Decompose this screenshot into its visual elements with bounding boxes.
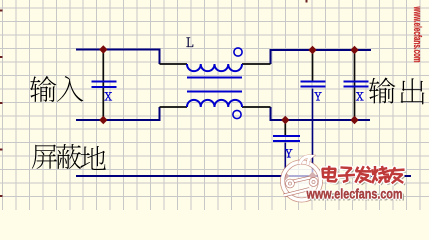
junction node: top rail / right X cap (350, 46, 358, 54)
capacitor Y (bottom): value label Y (285, 149, 292, 157)
capacitor Y (right): value label Y (314, 92, 321, 100)
wire bottom rail right (271, 107, 371, 120)
inductor L: pin bottom-left (160, 106, 188, 108)
inductor L: phase dot bottom (233, 110, 241, 118)
edge tick marks (left) (0, 10, 3, 12)
edge tick mark (top) (306, 0, 308, 3)
capacitor X (right output): pin (354, 50, 356, 120)
junction node: bottom rail / right X cap (350, 116, 358, 124)
inductor L: top winding (187, 64, 242, 71)
wire bottom rail left (76, 107, 160, 120)
capacitor Y (bottom): plates (273, 136, 300, 141)
inductor L: core line 1 (187, 77, 242, 79)
junction node: top rail / right Y cap (308, 46, 316, 54)
capacitor X (left): plates (92, 82, 117, 88)
capacitor X (right): value label X (356, 92, 363, 100)
label 输出 (output) (369, 77, 395, 103)
wire top rail left (76, 50, 160, 65)
capacitor Y (right, line-to-ground): pin (312, 50, 314, 81)
svg-text:www.elecfans.com: www.elecfans.com (411, 6, 423, 63)
watermark text www.elecfans.com (306, 187, 405, 205)
label 输入 (input) (30, 76, 56, 102)
wire shield ground line (76, 175, 411, 177)
wire right Y-cap to ground (312, 89, 314, 177)
inductor L: core line 2 (187, 91, 242, 93)
label 屏蔽地 (shield ground) (32, 145, 57, 169)
wire top rail right (271, 50, 372, 64)
capacitor X (right): plates (344, 82, 369, 87)
capacitor X (left input): pin (102, 50, 104, 121)
inductor L: bottom winding (187, 100, 242, 107)
inductor L: pin top-right (242, 63, 271, 65)
junction node: ground / bottom Y cap (281, 172, 289, 180)
inductor L: pin bottom-right (242, 106, 271, 108)
watermark logo flame (300, 156, 312, 165)
junction node: bottom rail / bottom Y cap (281, 116, 289, 124)
watermark logo circle (283, 162, 321, 200)
watermark logo switch contacts (284, 178, 317, 196)
inductor L common-mode choke: pin top-left (160, 63, 188, 65)
capacitor Y (right): plates (301, 82, 326, 87)
junction node: ground / right Y cap (308, 172, 316, 180)
capacitor Y (bottom, neutral-to-ground): pin (284, 120, 286, 136)
junction node: top rail / left X cap (99, 45, 107, 53)
capacitor X (left): value label X (104, 92, 111, 100)
watermark text 电子发烧友 (322, 166, 407, 186)
inductor L: designator label L (186, 38, 193, 47)
junction node: bottom rail / left X cap (99, 116, 107, 124)
svg-text:www.elecfans.com: www.elecfans.com (306, 187, 403, 203)
wire bottom Y-cap to ground (284, 143, 286, 177)
inductor L: phase dot top (234, 48, 242, 56)
